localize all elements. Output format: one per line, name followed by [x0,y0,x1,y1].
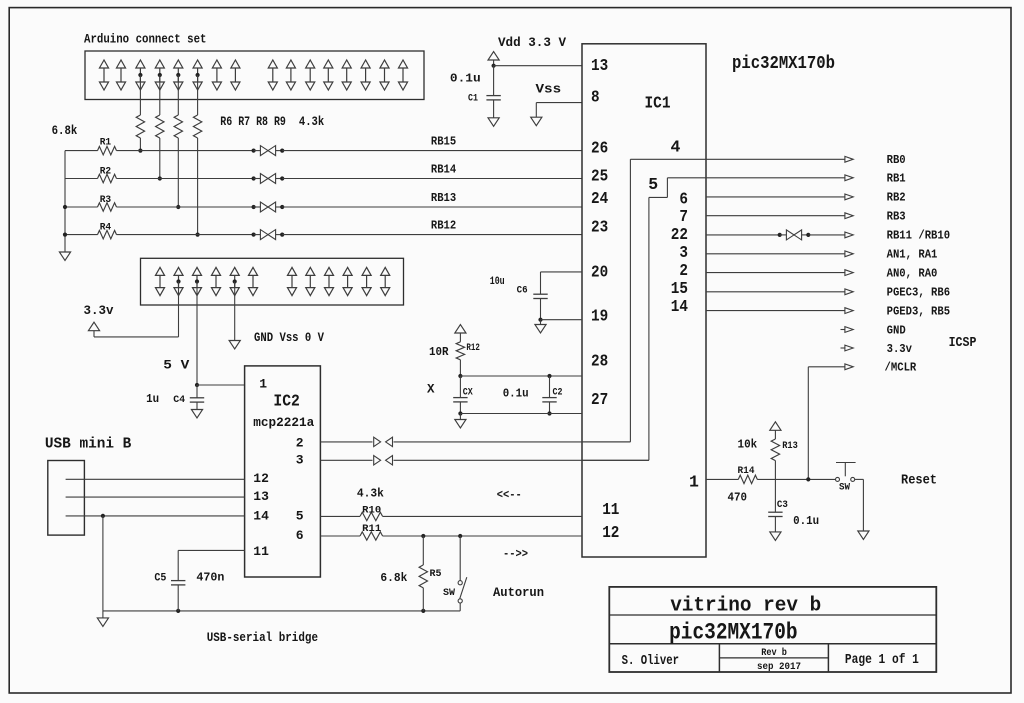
wire IC2 pin2 to IC1 (RX/TX) [320,441,630,443]
svg-text:R13: R13 [782,440,798,452]
header pin arrow 8 [231,60,240,68]
svg-text:S. Oliver: S. Oliver [622,653,679,669]
wire header tap to R6 [139,75,141,115]
header pin arrow 5 [174,60,183,68]
wire R4 to diode [117,234,254,236]
capacitor CX [459,376,461,398]
svg-text:5: 5 [648,175,658,194]
svg-text:Page 1 of 1: Page 1 of 1 [845,652,919,668]
ground reset [858,531,869,540]
junction dot left of diode [252,233,256,237]
title block col line 2 [827,644,829,672]
junction [158,176,162,180]
wire GND pin [234,282,236,341]
svg-text:13: 13 [253,489,269,504]
wire header tap to R8 [177,75,179,115]
svg-text:6: 6 [679,189,688,208]
svg-text:GND: GND [887,323,906,337]
resistor R4 6.8k [98,230,117,238]
wire USB D- [66,496,245,498]
ground arrow [229,341,240,350]
junction SW top [458,534,462,538]
wire bus to R3 [65,206,98,208]
svg-text:<<--: <<-- [497,488,522,502]
header pin arrow 16 [398,60,407,68]
header2 pin arrow 6 [248,267,257,275]
resistor R8 4.3k vertical [174,115,182,138]
svg-text:pic32MX170b: pic32MX170b [669,620,798,646]
header2 pin arrow 8 [306,267,315,275]
svg-text:R14: R14 [738,465,755,477]
svg-text:3: 3 [296,452,304,467]
svg-text:IC1: IC1 [645,95,671,114]
wire IC1 to PGED3, RB5 [706,310,845,312]
wire pin28 [460,375,582,377]
junction [547,411,551,415]
resistor R5 6.8k vertical [422,536,424,565]
svg-text:R1: R1 [100,137,112,149]
svg-text:RB11 /RB10: RB11 /RB10 [887,229,951,243]
junction dot right of diode [280,205,284,209]
junction [176,205,180,209]
junction [196,233,200,237]
svg-text:4.3k: 4.3k [357,487,384,501]
capacitor C6 10u [540,272,542,294]
arrow head PGED3, RB5 [845,308,853,314]
facing arrows pin3 [373,454,394,466]
svg-text:6.8k: 6.8k [52,124,78,138]
svg-text:10R: 10R [429,345,449,359]
wire R14 to switch [757,478,835,480]
wire pin19 [541,319,583,321]
arrow head RB2 [845,194,853,200]
resistor R13 10k [774,430,776,439]
wire RB12 to IC1 [282,234,582,236]
svg-text:AN1, RA1: AN1, RA1 [887,248,938,262]
svg-text:ICSP: ICSP [949,335,977,351]
junction [458,411,462,415]
IC U1 IC1 pic32MX170b body [582,44,706,557]
svg-text:2: 2 [679,261,688,280]
svg-text:C4: C4 [173,394,185,406]
header pin arrow 7 [212,60,221,68]
header pin arrow 1 [99,60,108,68]
wire IC1 pin1 to R14 [706,478,738,480]
svg-text:2: 2 [296,436,304,451]
resistor R1 6.8k [98,146,117,154]
capacitor C2 [549,376,551,398]
wire R1 to diode [117,150,254,152]
svg-text:C5: C5 [154,573,166,585]
resistor R11 4.3k [360,532,383,540]
svg-text:RB2: RB2 [887,191,906,205]
svg-text:23: 23 [591,218,608,237]
switch lever [460,577,467,599]
junction on header pin [158,73,162,77]
svg-text:11: 11 [253,544,269,559]
svg-text:28: 28 [591,352,608,371]
arrow head AN1, RA1 [845,251,853,257]
junction dot right of diode [280,176,284,180]
junction on header pin [138,73,142,77]
wire IC1 to AN0, RA0 [706,272,845,274]
svg-text:470: 470 [728,491,748,505]
junction dot right of diode [280,233,284,237]
wire pin27 [460,413,582,415]
header pin arrow 2 [116,60,125,68]
svg-text:R5: R5 [430,568,442,580]
ground bus [59,252,70,261]
resistor R9 4.3k vertical [193,115,201,138]
junction MCLR [806,477,810,481]
header2 pin arrow 11 [362,267,371,275]
svg-text:Vdd 3.3 V: Vdd 3.3 V [498,36,566,50]
wire R2 to diode [117,178,254,180]
wire pin8 Vss [536,102,582,104]
header2 pin arrow 4 [211,267,220,275]
svg-text:SW: SW [443,588,455,599]
svg-text:20: 20 [591,263,608,282]
resistor R7 4.3k vertical [156,115,164,138]
capacitor C4 1u [196,385,198,398]
junction [458,374,462,378]
wire bus to R2 [65,178,98,180]
svg-text:R12: R12 [466,343,480,354]
svg-text:RB14: RB14 [431,162,456,176]
capacitor C1 0.1u [493,66,495,96]
junction dot left of diode [252,176,256,180]
header2 pin arrow 3 [192,267,201,275]
wire to IC2 pin1 [197,384,245,386]
wire 3.3v to header [93,331,95,337]
wire IC1 pin5 net (RB1) [667,177,845,179]
header2 pin arrow 12 [381,267,390,275]
svg-text:8: 8 [591,87,600,106]
title block col line 1 [718,644,720,672]
wire pin20 [541,271,583,273]
resistor R2 6.8k [98,174,117,182]
power arrow above R12 [455,325,466,334]
3.3v stub arrow [841,347,846,349]
junction dot left of diode [252,205,256,209]
connector J1 Arduino header top [85,51,424,100]
ground below C3 [770,532,781,541]
junction C2 top [547,374,551,378]
header pin arrow 6 [193,60,202,68]
svg-text:10k: 10k [738,438,758,452]
wire R9 to RB12 line [197,138,199,235]
svg-text:Arduino connect set: Arduino connect set [84,31,207,46]
junction on header2 pin [233,279,237,283]
svg-text:IC2: IC2 [273,392,300,411]
svg-text:RB12: RB12 [431,218,456,232]
svg-text:0.1u: 0.1u [793,514,819,528]
svg-text:Rev b: Rev b [761,647,787,659]
junction USB gnd [101,514,105,518]
wire USB GND [66,515,245,517]
header pin arrow 12 [324,60,333,68]
ground below C6 [535,325,546,334]
svg-text:15: 15 [671,279,688,298]
bus vertical left [64,151,66,252]
wire RB13 to IC1 [282,206,582,208]
svg-text:5 V: 5 V [163,357,189,372]
resistor R3 6.8k [98,203,117,211]
wire RB14 to IC1 [282,178,582,180]
svg-text:14: 14 [253,509,269,524]
svg-text:14: 14 [671,297,688,316]
wire IC1 to RB11 /RB10 [706,234,780,236]
svg-text:RB3: RB3 [887,210,906,224]
svg-text:0.1u: 0.1u [450,72,481,86]
svg-text:X: X [427,383,435,397]
switch SW autorun [459,536,461,581]
wire 5V to C4 node [196,282,198,386]
connector J2 header bottom [141,258,404,305]
svg-text:0.1u: 0.1u [503,387,529,401]
junction R5 top [421,534,425,538]
header pin arrow 9 [268,60,277,68]
svg-text:pic32MX170b: pic32MX170b [732,54,835,74]
header pin arrow 14 [361,60,370,68]
arrow head RB0 [845,156,853,162]
svg-text:sep 2017: sep 2017 [757,662,801,673]
gnd rail bottom [103,610,460,612]
svg-text:SW: SW [839,483,850,494]
wire bus to R1 [65,150,98,152]
svg-text:-->>: -->> [503,547,528,561]
title block row line 1 [609,614,936,616]
junction R5 bottom [421,609,425,613]
ground below C1 [488,118,499,127]
ground below C4 [191,410,202,419]
svg-text:11: 11 [602,500,619,519]
wire R3 to diode [117,206,254,208]
svg-text:C6: C6 [517,285,528,297]
wire IC1 to PGEC3, RB6 [706,291,845,293]
wire R7 to RB14 line [159,138,161,179]
svg-text:Vss: Vss [536,82,562,96]
TVS diode pair on RB15 [254,150,261,152]
wire IC2 pin5 R10 to IC1 pin11 [320,515,360,517]
svg-text:R11: R11 [362,523,381,535]
power arrow 3.3v [88,322,99,331]
svg-text:R3: R3 [100,194,112,206]
svg-text:27: 27 [591,390,608,409]
svg-text:RB1: RB1 [887,172,906,186]
svg-text:PGED3, RB5: PGED3, RB5 [887,304,951,318]
wire R6 to RB15 line [139,138,141,151]
connector USB mini B body [48,461,85,536]
junction dot right of diode [280,149,284,153]
svg-text:USB-serial bridge: USB-serial bridge [207,630,318,645]
svg-text:25: 25 [591,166,608,185]
svg-text:R6 R7 R8 R9: R6 R7 R8 R9 [220,115,286,129]
svg-text:7: 7 [679,207,688,226]
header2 pin arrow 2 [174,267,183,275]
arrow head PGEC3, RB6 [845,289,853,295]
facing arrows pin2 [373,436,394,448]
wire switch to ground [855,478,864,480]
arrow head RB3 [845,213,853,219]
svg-text:USB mini B: USB mini B [45,435,131,452]
junction bus/R3 [63,205,67,209]
title block middle split [719,657,828,659]
svg-text:5: 5 [296,509,304,524]
svg-text:24: 24 [591,189,608,208]
title block row line 2 [609,643,936,645]
svg-text:1: 1 [689,473,699,492]
svg-text:26: 26 [591,138,608,157]
svg-text:6.8k: 6.8k [380,571,407,585]
svg-text:RB15: RB15 [431,134,456,148]
ground USB [102,611,104,618]
wire bus to R4 [65,234,98,236]
header2 pin arrow 9 [324,267,333,275]
ground below CX [459,414,461,420]
junction [138,149,142,153]
capacitor C5 470n [177,550,179,580]
junction C4 [195,383,199,387]
svg-text:mcp2221a: mcp2221a [253,416,315,430]
pushbutton SW reset [836,462,856,464]
junction C5 bottom [176,609,180,613]
power arrow Vdd [488,52,499,61]
wire IC1 pin4 net (RB0) [630,158,845,160]
junction on header2 pin [195,279,199,283]
wire IC2 pin11 to C5 [178,549,244,551]
ground Vss [531,117,542,126]
TVS diode pair on RB11 [780,234,787,236]
svg-text:3.3v: 3.3v [84,303,114,318]
resistor R6 4.3k vertical [136,115,144,138]
wire header tap to R7 [159,75,161,115]
svg-text:12: 12 [253,471,269,486]
svg-text:4: 4 [671,137,681,156]
wire down to gnd rail [102,516,104,611]
header2 pin arrow 1 [155,267,164,275]
wire R8 to RB13 line [177,138,179,207]
wire header tap to R9 [197,75,199,115]
svg-text:vitrino rev b: vitrino rev b [670,594,821,617]
header pin arrow 11 [306,60,315,68]
svg-text:19: 19 [591,307,608,326]
svg-text:RB0: RB0 [887,153,906,167]
header pin arrow 13 [342,60,351,68]
svg-text:1u: 1u [146,392,159,406]
svg-text:3: 3 [679,243,688,262]
arrow head AN0, RA0 [845,270,853,276]
TVS diode pair on RB13 [254,206,261,208]
arrow head RB11 /RB10 [845,232,853,238]
header2 pin arrow 10 [343,267,352,275]
header pin arrow 10 [286,60,295,68]
IC U2 IC2 mcp2221a body [245,366,321,577]
svg-text:C1: C1 [468,93,478,105]
svg-text:Reset: Reset [901,472,937,488]
header pin arrow 3 [136,60,145,68]
junction dot left of diode [252,149,256,153]
header pin arrow 15 [380,60,389,68]
junction bus/R4 [63,233,67,237]
junction on header pin [176,73,180,77]
svg-text:10u: 10u [490,276,505,288]
wire IC1 to RB2 [706,196,845,198]
wire USB D+ [66,478,245,480]
TVS diode pair on RB14 [254,178,261,180]
wire IC2 pin6 R11 to IC1 pin12 [320,535,360,537]
svg-text:13: 13 [591,56,608,75]
svg-text:Autorun: Autorun [493,586,544,600]
wire IC1 to AN1, RA1 [706,253,845,255]
wire Vdd to pin13 [493,60,495,66]
resistor R14 470 [738,475,757,483]
header2 pin arrow 5 [230,267,239,275]
svg-text:3.3v: 3.3v [887,342,912,356]
svg-text:/MCLR: /MCLR [885,361,917,375]
/MCLR arrow and wire [845,364,853,370]
junction dot [778,233,782,237]
junction on header pin [196,73,200,77]
svg-text:12: 12 [602,523,619,542]
title block frame [609,587,936,672]
svg-text:470n: 470n [196,571,224,585]
svg-text:R10: R10 [362,504,381,516]
junction on header2 pin [176,279,180,283]
svg-text:4.3k: 4.3k [299,115,325,129]
svg-text:AN0, RA0: AN0, RA0 [887,266,938,280]
svg-text:R2: R2 [100,166,112,178]
power arrow above R13 [770,422,781,431]
wire IC1 to RB3 [706,215,845,217]
header pin arrow 4 [155,60,164,68]
GND stub arrow [841,329,846,331]
svg-text:C3: C3 [777,499,788,511]
svg-text:6: 6 [296,528,304,543]
TVS diode pair on RB12 [254,234,261,236]
svg-text:CX: CX [463,388,473,399]
svg-text:R4: R4 [100,222,112,234]
resistor R10 4.3k [360,512,383,520]
svg-text:C2: C2 [553,388,563,399]
svg-text:GND Vss 0 V: GND Vss 0 V [254,331,324,345]
capacitor C3 0.1u [768,511,782,513]
svg-text:PGEC3, RB6: PGEC3, RB6 [887,286,951,300]
svg-text:RB13: RB13 [431,191,456,205]
svg-text:1: 1 [259,377,267,392]
junction [538,318,542,322]
header2 pin arrow 7 [287,267,296,275]
wire RB15 to IC1 [282,150,582,152]
arrow head RB1 [845,175,853,181]
junction dot [806,233,810,237]
resistor R12 10R [459,333,461,342]
wire IC2 pin3 to IC1 [320,459,649,461]
svg-text:22: 22 [671,225,688,244]
